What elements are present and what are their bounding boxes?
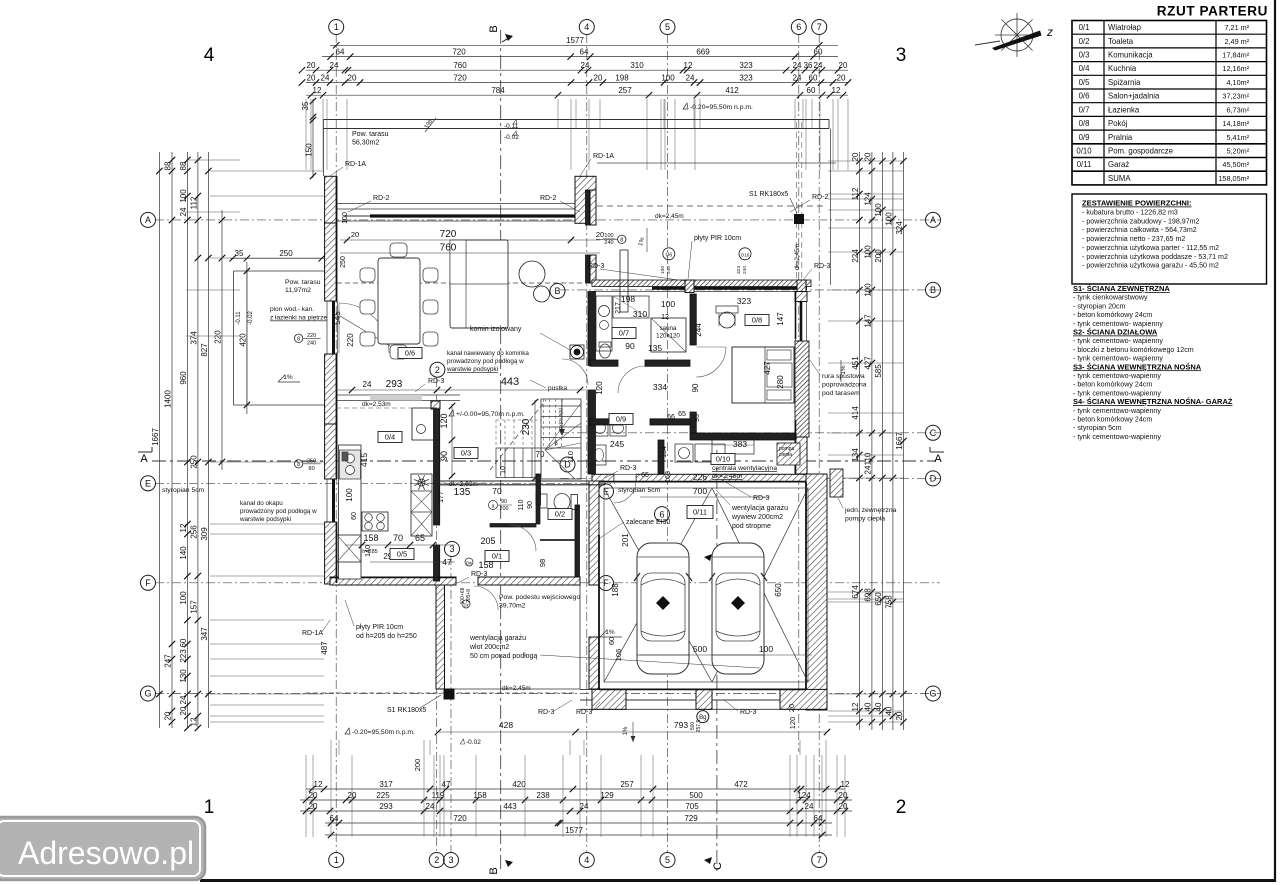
axis circle 1 bottom [329,853,344,868]
axis circle 6 top [791,20,806,35]
wall north thin lines [336,203,586,205]
svg-text:119: 119 [432,791,445,800]
svg-text:12: 12 [851,702,860,711]
svg-text:A: A [934,453,942,465]
svg-text:240: 240 [666,266,672,274]
svg-text:24: 24 [793,61,802,70]
svg-text:120: 120 [788,717,797,730]
sauna box [651,318,686,352]
pralnia sink [592,445,606,465]
door label Dz [462,600,470,608]
right dim chain x903 [902,152,904,730]
svg-text:4: 4 [584,855,589,865]
svg-text:0/2: 0/2 [555,510,565,519]
svg-text:10: 10 [500,466,507,474]
svg-text:RD-1A: RD-1A [593,153,614,160]
svg-text:Dw: Dw [466,560,473,565]
svg-text:wywiew 200cm2: wywiew 200cm2 [731,514,783,521]
svg-text:dk=2,53m: dk=2,53m [362,401,391,408]
svg-text:7: 7 [817,22,822,32]
wall garage south col mid [696,689,712,709]
svg-text:47: 47 [442,557,452,567]
svg-text:64: 64 [336,47,345,56]
svg-text:347: 347 [200,627,209,641]
wall west band bottom [325,522,337,584]
fridge box [412,408,437,440]
room label 0/6 [398,348,422,359]
svg-text:134: 134 [661,446,668,458]
svg-text:0/11: 0/11 [693,508,707,517]
svg-text:- tynk cementowo-wapienny: - tynk cementowo-wapienny [1073,407,1161,415]
svg-text:od h=205 do h=250: od h=205 do h=250 [356,633,417,640]
wall right-wing north [592,280,811,287]
terrace door arc [339,303,389,353]
Adresowo.pl watermark [0,817,205,880]
horizontal axis F line [155,582,940,584]
door label 220/240 [294,334,302,342]
svg-text:200: 200 [874,249,883,263]
svg-text:RD-1A: RD-1A [345,161,366,168]
car 2 [712,543,764,674]
svg-text:24: 24 [363,380,372,389]
svg-text:-0.02: -0.02 [466,739,481,746]
dim 150 terrace [312,118,314,178]
svg-text:64: 64 [814,814,823,823]
svg-text:RD-3: RD-3 [576,709,592,716]
svg-text:centrala wentylacyjna: centrala wentylacyjna [712,465,777,472]
svg-text:760: 760 [440,243,457,254]
svg-text:244: 244 [694,323,703,337]
svg-text:Pom. gospodarcze: Pom. gospodarcze [1108,147,1173,156]
dryer [610,420,626,436]
axis circle D right [926,471,941,486]
svg-text:135: 135 [454,487,471,498]
svg-text:60: 60 [607,637,616,645]
svg-text:12: 12 [189,717,198,726]
svg-text:0/11: 0/11 [1077,160,1092,169]
svg-text:240: 240 [604,240,613,246]
svg-text:720: 720 [452,47,466,56]
svg-text:90: 90 [439,451,449,461]
svg-text:S3- ŚCIANA WEWNĘTRZNA NOŚNA: S3- ŚCIANA WEWNĘTRZNA NOŚNA [1073,362,1202,371]
svg-text:66: 66 [667,414,675,421]
shower area [613,296,649,318]
svg-text:0/7: 0/7 [1079,105,1090,114]
window west 2 [332,479,335,522]
svg-text:323: 323 [737,296,751,306]
coffee table small [534,286,550,302]
svg-text:12: 12 [661,314,669,321]
svg-text:-0.11: -0.11 [236,311,242,325]
gosp counter [712,437,754,454]
steel col S1 vlines [795,122,797,283]
svg-text:20: 20 [839,802,848,811]
svg-text:40: 40 [863,702,872,711]
svg-text:60: 60 [807,86,816,95]
svg-text:20: 20 [164,711,173,720]
side terrace dim chain [230,257,325,259]
wall spine vertical [588,292,596,366]
svg-text:60: 60 [809,73,818,82]
axis circle E inside [599,484,614,499]
room east wall inner face [795,291,797,339]
wall toilet box [536,474,541,505]
svg-text:100: 100 [660,266,666,274]
svg-text:451: 451 [851,356,860,370]
bottom dim chain row2 [300,799,852,801]
svg-text:wentylacja garażu: wentylacja garażu [469,635,526,642]
svg-text:6,73m²: 6,73m² [1226,105,1249,114]
section line C [716,450,718,872]
left dim chain x159 (1667) [158,152,160,728]
wall corridor south [590,419,622,425]
svg-text:135: 135 [648,343,662,353]
kitchen counter west [339,445,362,579]
svg-text:Pralnia: Pralnia [1108,133,1133,142]
axis circle 7 top [812,20,827,35]
svg-text:- beton komórkowy 24cm: - beton komórkowy 24cm [1073,381,1152,389]
axis circle G left [141,686,156,701]
top dim chain row3 [306,69,848,71]
svg-text:G: G [929,689,936,699]
svg-text:Garaż: Garaż [1108,160,1129,169]
svg-text:8: 8 [297,337,300,343]
svg-text:0/8: 0/8 [1079,119,1090,128]
svg-text:24: 24 [581,61,590,70]
svg-text:226: 226 [693,472,707,482]
svg-text:Adresowo.pl: Adresowo.pl [18,835,194,871]
wall garage west [589,481,599,585]
axis circle B inside [550,284,565,299]
right dim chain x882 [881,152,883,730]
wall north-right column [575,176,596,223]
svg-text:S1 RK180x5: S1 RK180x5 [387,707,426,714]
svg-text:1400: 1400 [164,390,173,408]
room label 0/1 [485,551,509,562]
svg-text:0/6: 0/6 [405,349,415,358]
circle 6 inner [655,507,670,522]
axis circle F inside [599,576,614,591]
svg-text:134: 134 [851,448,860,462]
svg-text:płyty PIR 10cm: płyty PIR 10cm [356,624,403,631]
stairs dashed cut [490,400,546,470]
svg-text:100: 100 [342,212,349,224]
svg-text:24: 24 [863,465,872,474]
svg-text:280: 280 [776,375,785,389]
svg-text:S1 RK180x5: S1 RK180x5 [749,191,788,198]
svg-text:80: 80 [309,466,315,472]
svg-text:324: 324 [895,221,904,235]
svg-text:0/8: 0/8 [752,316,762,325]
axis circle 7 bottom [812,853,827,868]
svg-text:pod stropme: pod stropme [732,523,771,530]
toilet 0/2 basin [538,494,547,508]
svg-text:6: 6 [796,22,801,32]
room label 0/11 [687,506,713,519]
svg-text:- powierzchnia całkowita - 564: - powierzchnia całkowita - 564,73m2 [1082,226,1197,234]
north compass [1001,19,1033,51]
svg-text:- powierzchnia użytkowa garażu: - powierzchnia użytkowa garażu - 45,50 m… [1082,262,1219,270]
wall garage north [592,474,614,481]
svg-text:220: 220 [346,333,355,347]
left dim chain x187 [186,152,188,728]
svg-text:100: 100 [661,73,675,82]
pompa box [777,443,800,465]
svg-text:20: 20 [863,152,872,161]
axis circle 3 bottom [444,853,459,868]
roof overhang dashed [597,205,827,207]
svg-text:-0.02: -0.02 [248,311,254,325]
terrace top edge [323,119,829,121]
circle Bg inner [697,711,709,723]
svg-text:20: 20 [851,152,860,161]
axis circle F left [141,575,156,590]
svg-text:20: 20 [839,61,848,70]
svg-text:1577: 1577 [566,36,584,45]
svg-text:198: 198 [621,294,635,304]
svg-text:545: 545 [333,311,342,325]
svg-text:293: 293 [379,802,393,811]
right dim chain x893 [892,152,894,730]
svg-text:323: 323 [736,266,742,274]
svg-text:100: 100 [345,488,354,502]
room label 0/3 [454,448,478,459]
svg-text:warstwie podsypki: warstwie podsypki [239,516,291,523]
svg-text:płyty PIR 10cm: płyty PIR 10cm [694,235,741,242]
svg-text:124: 124 [797,791,811,800]
heat pump unit [830,469,843,497]
svg-text:90: 90 [625,341,635,351]
svg-text:20: 20 [837,73,846,82]
svg-text:760: 760 [453,61,467,70]
svg-text:0/1: 0/1 [492,552,502,561]
svg-text:- bloczki z betonu komórkowego: - bloczki z betonu komórkowego 12cm [1073,346,1194,354]
svg-text:20: 20 [839,791,848,800]
svg-text:200: 200 [413,759,422,772]
svg-text:Salon+jadalnia: Salon+jadalnia [1108,92,1160,101]
garage cross bay2 [712,488,808,682]
bottom dim chain row5 [325,834,832,836]
wall garage south col left [592,689,626,709]
garage inner rect [604,488,808,682]
svg-text:427: 427 [763,361,772,375]
svg-text:E: E [145,479,151,489]
svg-text:RD-2: RD-2 [373,195,389,202]
washer [592,420,608,436]
door label a [489,501,498,510]
svg-text:- powierzchnia netto - 237,65: - powierzchnia netto - 237,65 m2 [1082,235,1185,243]
wall stairs-bottom horizontal [434,480,605,482]
horizontal axis E line [155,482,615,484]
bed [732,347,794,403]
svg-text:Łazienka: Łazienka [1108,105,1140,114]
svg-text:3: 3 [896,45,907,66]
svg-text:130: 130 [179,669,188,683]
horizontal axis D line [560,477,940,479]
svg-text:1667: 1667 [895,432,904,450]
svg-text:188: 188 [611,583,620,597]
svg-text:217: 217 [615,302,622,314]
svg-text:220: 220 [214,330,223,344]
svg-text:24: 24 [179,695,188,704]
svg-text:RD-3: RD-3 [538,709,554,716]
svg-text:4,10m²: 4,10m² [1226,78,1249,87]
axis circle 1 top [329,20,344,35]
svg-text:Kuchnia: Kuchnia [1108,64,1137,73]
svg-text:-0.20=95,50m n.p.m.: -0.20=95,50m n.p.m. [352,729,415,736]
wall east band3 [795,437,807,474]
svg-text:20: 20 [351,230,359,239]
axis circle 4 top [579,20,594,35]
bottom dim chain row1 [306,788,845,790]
porch dashed dk line [305,692,576,694]
svg-text:158: 158 [363,533,378,543]
svg-text:24: 24 [686,73,695,82]
kitchen hob island [362,512,388,531]
svg-text:- tynk cementowo-wapienny: - tynk cementowo-wapienny [1073,433,1161,441]
svg-text:1: 1 [204,797,215,818]
svg-text:RD-3: RD-3 [588,263,604,270]
svg-text:420: 420 [512,780,526,789]
axis circle 5 top [660,20,675,35]
svg-text:257: 257 [618,86,632,95]
svg-text:50 cm ponad podłogą: 50 cm ponad podłogą [470,653,537,660]
car 1 [637,543,689,674]
svg-text:11,97m2: 11,97m2 [285,287,311,294]
top dim chain row1 (1577) [330,44,838,46]
left dim chain x172 [171,152,173,728]
svg-text:20: 20 [309,802,318,811]
svg-text:163: 163 [665,471,672,483]
window circle O6 [663,248,675,260]
svg-text:37,23m²: 37,23m² [1222,92,1249,101]
svg-text:65: 65 [678,411,686,418]
room area table [1072,21,1267,185]
svg-text:317: 317 [379,780,393,789]
svg-text:A: A [140,453,148,465]
svg-text:110: 110 [566,451,575,463]
svg-text:443: 443 [501,376,519,388]
svg-text:- beton komórkowy 24cm: - beton komórkowy 24cm [1073,311,1152,319]
svg-text:pod tarasem: pod tarasem [822,390,860,397]
svg-text:960: 960 [179,371,188,385]
svg-text:warstwie podsypki: warstwie podsypki [446,366,498,373]
svg-text:S1- ŚCIANA ZEWNĘTRZNA: S1- ŚCIANA ZEWNĘTRZNA [1073,284,1170,293]
window west glass door [332,301,335,354]
svg-text:5: 5 [665,855,670,865]
svg-text:dk=2,45m: dk=2,45m [502,685,531,692]
svg-text:0/3: 0/3 [461,449,471,458]
svg-text:70: 70 [536,450,545,459]
svg-text:24: 24 [179,207,188,216]
svg-text:2,49 m²: 2,49 m² [1224,37,1249,46]
svg-text:8: 8 [297,462,300,468]
svg-text:729: 729 [684,814,698,823]
svg-text:250: 250 [189,455,198,469]
svg-text:C: C [712,862,724,870]
svg-text:45,50m²: 45,50m² [1222,160,1249,169]
svg-text:35: 35 [301,101,310,110]
svg-text:12: 12 [841,780,850,789]
svg-text:rura spustowa: rura spustowa [822,373,865,380]
svg-text:20: 20 [309,791,318,800]
svg-text:styropian 5cm: styropian 5cm [162,487,205,494]
svg-text:650: 650 [874,592,883,606]
RD-3 square west [685,280,694,293]
window label 250/80 [294,460,302,468]
wall room8 south [690,433,796,440]
svg-text:12: 12 [832,86,841,95]
svg-text:RD-3: RD-3 [428,378,444,385]
kitchen hob star [422,483,429,486]
svg-text:177: 177 [438,491,445,503]
svg-text:B: B [488,25,500,32]
svg-text:20: 20 [895,711,904,720]
vertical axis 1 line [335,34,337,852]
svg-text:F: F [145,578,151,588]
svg-text:20: 20 [179,706,188,715]
svg-text:12: 12 [313,86,322,95]
room label 0/10 [711,454,735,465]
svg-text:-0.20=95,50m n.p.m.: -0.20=95,50m n.p.m. [690,104,753,111]
S1 col bottom square [444,689,454,699]
drawing frame bottom border [200,879,1276,882]
svg-text:720: 720 [440,229,457,240]
svg-text:styropian 5cm: styropian 5cm [618,487,661,494]
bottom extension lines [305,755,307,837]
svg-text:RD-3: RD-3 [471,571,487,578]
svg-text:310: 310 [633,309,647,319]
svg-text:Pow. tarasu: Pow. tarasu [285,279,321,286]
svg-text:7: 7 [817,855,822,865]
svg-text:0/10: 0/10 [1076,147,1092,156]
svg-text:120: 120 [595,381,604,395]
svg-text:140: 140 [365,545,372,557]
axis circle D inside [560,457,575,472]
svg-text:Spiżarnia: Spiżarnia [1108,78,1141,87]
svg-text:7,21 m²: 7,21 m² [1224,23,1249,32]
svg-text:65: 65 [415,533,425,543]
svg-text:1: 1 [334,855,339,865]
door label 100/240 east [618,235,626,243]
svg-text:- powierzchnia użytkowa poddas: - powierzchnia użytkowa poddasze - 53,71… [1082,253,1228,261]
axis circle C right [926,425,941,440]
wall kitchen south [330,577,456,585]
svg-text:500: 500 [693,644,707,654]
svg-text:225: 225 [376,791,390,800]
svg-text:RD-3: RD-3 [620,465,636,472]
svg-text:98: 98 [538,559,547,567]
sofa [450,240,508,328]
svg-text:12: 12 [684,61,693,70]
svg-text:Komunikacja: Komunikacja [1108,51,1153,60]
axis circle E left [141,476,156,491]
bottom dim chain row3 [300,810,852,812]
room label 0/8 [745,315,769,326]
wall porch west [436,585,445,689]
svg-text:100: 100 [863,245,872,259]
section line B [500,30,502,872]
svg-text:720: 720 [453,73,467,82]
svg-text:35: 35 [235,249,244,258]
svg-text:S2- ŚCIANA DZIAŁOWA: S2- ŚCIANA DZIAŁOWA [1073,328,1158,337]
svg-text:- tynk cementowo-wapienny: - tynk cementowo-wapienny [1073,372,1161,380]
svg-text:56,30m2: 56,30m2 [352,140,379,147]
svg-text:- powierzchnia użytkowa parter: - powierzchnia użytkowa parter - 112,55 … [1082,244,1219,252]
svg-text:B: B [554,286,560,296]
svg-text:0/4: 0/4 [1079,64,1091,73]
svg-text:ciepła: ciepła [779,452,792,458]
